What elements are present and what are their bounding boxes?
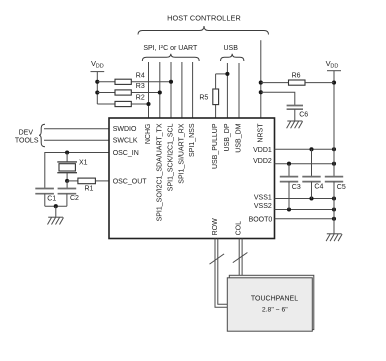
svg-text:COL: COL xyxy=(236,221,243,236)
svg-text:C5: C5 xyxy=(337,184,346,191)
wire COL bus line 1 xyxy=(238,239,240,276)
wire SPI1_SI/UART_RX xyxy=(181,62,183,118)
brace host controller xyxy=(138,26,269,35)
wire VDD1 xyxy=(275,148,335,150)
bus slash ROW xyxy=(210,254,225,264)
svg-text:C4: C4 xyxy=(314,184,323,191)
svg-text:USB_PULLUP: USB_PULLUP xyxy=(212,123,219,169)
IC block xyxy=(109,118,275,239)
bus slash COL xyxy=(233,253,248,263)
ground right rail xyxy=(326,234,342,241)
node R4/wire3 xyxy=(169,80,173,84)
svg-text:C6: C6 xyxy=(299,112,308,119)
node R3/wire2 xyxy=(158,90,162,94)
resistor R6 xyxy=(261,72,334,85)
wire VDD2 xyxy=(275,163,335,165)
svg-text:USB: USB xyxy=(223,45,238,52)
svg-text:DD: DD xyxy=(330,63,338,69)
svg-text:C3: C3 xyxy=(292,184,301,191)
wire ROW bus line 2 xyxy=(218,239,228,305)
resistor R3 xyxy=(97,83,160,95)
svg-text:USB_DM: USB_DM xyxy=(236,123,243,152)
wire SPI1_SCK/I2C1_SCL xyxy=(170,62,172,118)
svg-text:SPI, I2C or UART: SPI, I2C or UART xyxy=(143,44,198,52)
node VDD1/C4 xyxy=(309,147,313,151)
node R6/VDD rail xyxy=(332,81,336,85)
wire C1 C2 ground rail xyxy=(45,205,67,207)
svg-text:VSS1: VSS1 xyxy=(254,195,272,202)
node VDD/R4 xyxy=(95,80,99,84)
svg-text:SPI1_SO/I2C1_SDA/UART_TX: SPI1_SO/I2C1_SDA/UART_TX xyxy=(156,123,163,221)
VDD symbol left xyxy=(91,59,105,104)
wire VSS1 xyxy=(275,198,335,200)
svg-text:NRST: NRST xyxy=(257,123,264,143)
brace spi bus xyxy=(142,54,199,61)
node VSS1/C4 xyxy=(309,196,313,200)
node BOOT0/rail xyxy=(332,217,336,221)
resistor R1 xyxy=(67,178,109,192)
svg-text:SWDIO: SWDIO xyxy=(113,126,137,133)
svg-text:DEV: DEV xyxy=(19,129,34,136)
wire SWDIO xyxy=(44,128,109,130)
wire OSC_IN xyxy=(45,153,109,189)
touchpanel back panel xyxy=(229,275,313,329)
svg-text:VDD1: VDD1 xyxy=(253,147,272,154)
wire BOOT0 xyxy=(275,218,335,220)
node VDD1/rail xyxy=(332,147,336,151)
node VSS1/rail xyxy=(332,196,336,200)
VDD symbol right xyxy=(326,59,341,177)
node R2/wire1 xyxy=(146,102,150,106)
node R5/USB_DP junction xyxy=(225,72,229,76)
node VDD2/C3 xyxy=(287,162,291,166)
node X1/R1/C2 xyxy=(65,179,69,183)
svg-text:C1: C1 xyxy=(47,196,56,203)
touchpanel front panel xyxy=(227,278,312,331)
wire VSS2 xyxy=(275,209,335,211)
svg-text:NCHG: NCHG xyxy=(145,124,152,145)
wire NCHG xyxy=(148,62,150,118)
wire ROW bus line 1 xyxy=(215,239,227,308)
brace dev tools xyxy=(39,124,45,146)
svg-text:R5: R5 xyxy=(199,95,208,102)
svg-text:USB_DP: USB_DP xyxy=(224,123,231,151)
capacitor C6 xyxy=(261,92,308,121)
node rail/ground xyxy=(54,204,58,208)
wire USB_DP xyxy=(226,63,228,118)
svg-text:BOOT0: BOOT0 xyxy=(249,216,273,223)
capacitor C1 xyxy=(35,189,56,207)
node VDD/R3 xyxy=(95,90,99,94)
resistor R5 xyxy=(199,74,218,118)
wire SWCLK xyxy=(44,139,109,141)
capacitor C4 xyxy=(302,149,323,198)
crystal X1 xyxy=(57,153,87,181)
svg-text:SPI1_SI/UART_RX: SPI1_SI/UART_RX xyxy=(178,123,185,184)
svg-text:OSC_IN: OSC_IN xyxy=(113,150,139,157)
svg-text:C2: C2 xyxy=(70,195,79,202)
svg-text:R4: R4 xyxy=(136,73,145,80)
svg-text:TOOLS: TOOLS xyxy=(15,137,39,144)
capacitor C2 xyxy=(58,181,79,206)
svg-text:R3: R3 xyxy=(136,83,145,90)
node NRST/R6 xyxy=(259,81,263,85)
svg-text:SPI1_SCK/I2C1_SCL: SPI1_SCK/I2C1_SCL xyxy=(168,123,175,191)
svg-text:VSS2: VSS2 xyxy=(254,203,272,210)
svg-text:2.8" ~ 6": 2.8" ~ 6" xyxy=(262,307,288,314)
wire NRST xyxy=(260,40,262,118)
svg-text:R1: R1 xyxy=(85,185,94,192)
node VSS2/rail xyxy=(332,207,336,211)
svg-text:OSC_OUT: OSC_OUT xyxy=(113,178,148,185)
svg-text:HOST CONTROLLER: HOST CONTROLLER xyxy=(167,13,241,22)
svg-text:X1: X1 xyxy=(79,160,88,167)
svg-text:R2: R2 xyxy=(136,95,145,102)
node VDD2/rail xyxy=(332,162,336,166)
resistor R2 xyxy=(97,95,148,107)
wire COL bus line 2 xyxy=(241,239,243,276)
svg-text:R6: R6 xyxy=(292,72,301,79)
wire SPI1_SO/I2C1_SDA/UART_TX xyxy=(159,62,161,118)
wire SPI1_NSS xyxy=(192,62,194,118)
ground left xyxy=(48,217,64,224)
svg-text:ROW: ROW xyxy=(212,218,219,236)
svg-text:SPI1_NSS: SPI1_NSS xyxy=(189,123,196,157)
capacitor C3 xyxy=(280,164,301,210)
brace usb xyxy=(221,54,244,61)
node NRST/C6 xyxy=(259,90,263,94)
capacitor C5 xyxy=(325,177,346,234)
svg-text:TOUCHPANEL: TOUCHPANEL xyxy=(251,295,298,302)
wire USB_DM xyxy=(238,63,240,118)
svg-text:DD: DD xyxy=(96,63,104,69)
node OSC_IN/X1 xyxy=(65,150,69,154)
svg-text:SWCLK: SWCLK xyxy=(113,138,138,145)
node VSS2/C3 xyxy=(287,207,291,211)
wire ground stem left xyxy=(55,206,57,217)
ground under C6 xyxy=(287,121,303,128)
resistor R4 xyxy=(97,73,171,85)
svg-text:VDD2: VDD2 xyxy=(253,158,272,165)
wire USB_PULLUP to USB_DP xyxy=(216,73,228,75)
